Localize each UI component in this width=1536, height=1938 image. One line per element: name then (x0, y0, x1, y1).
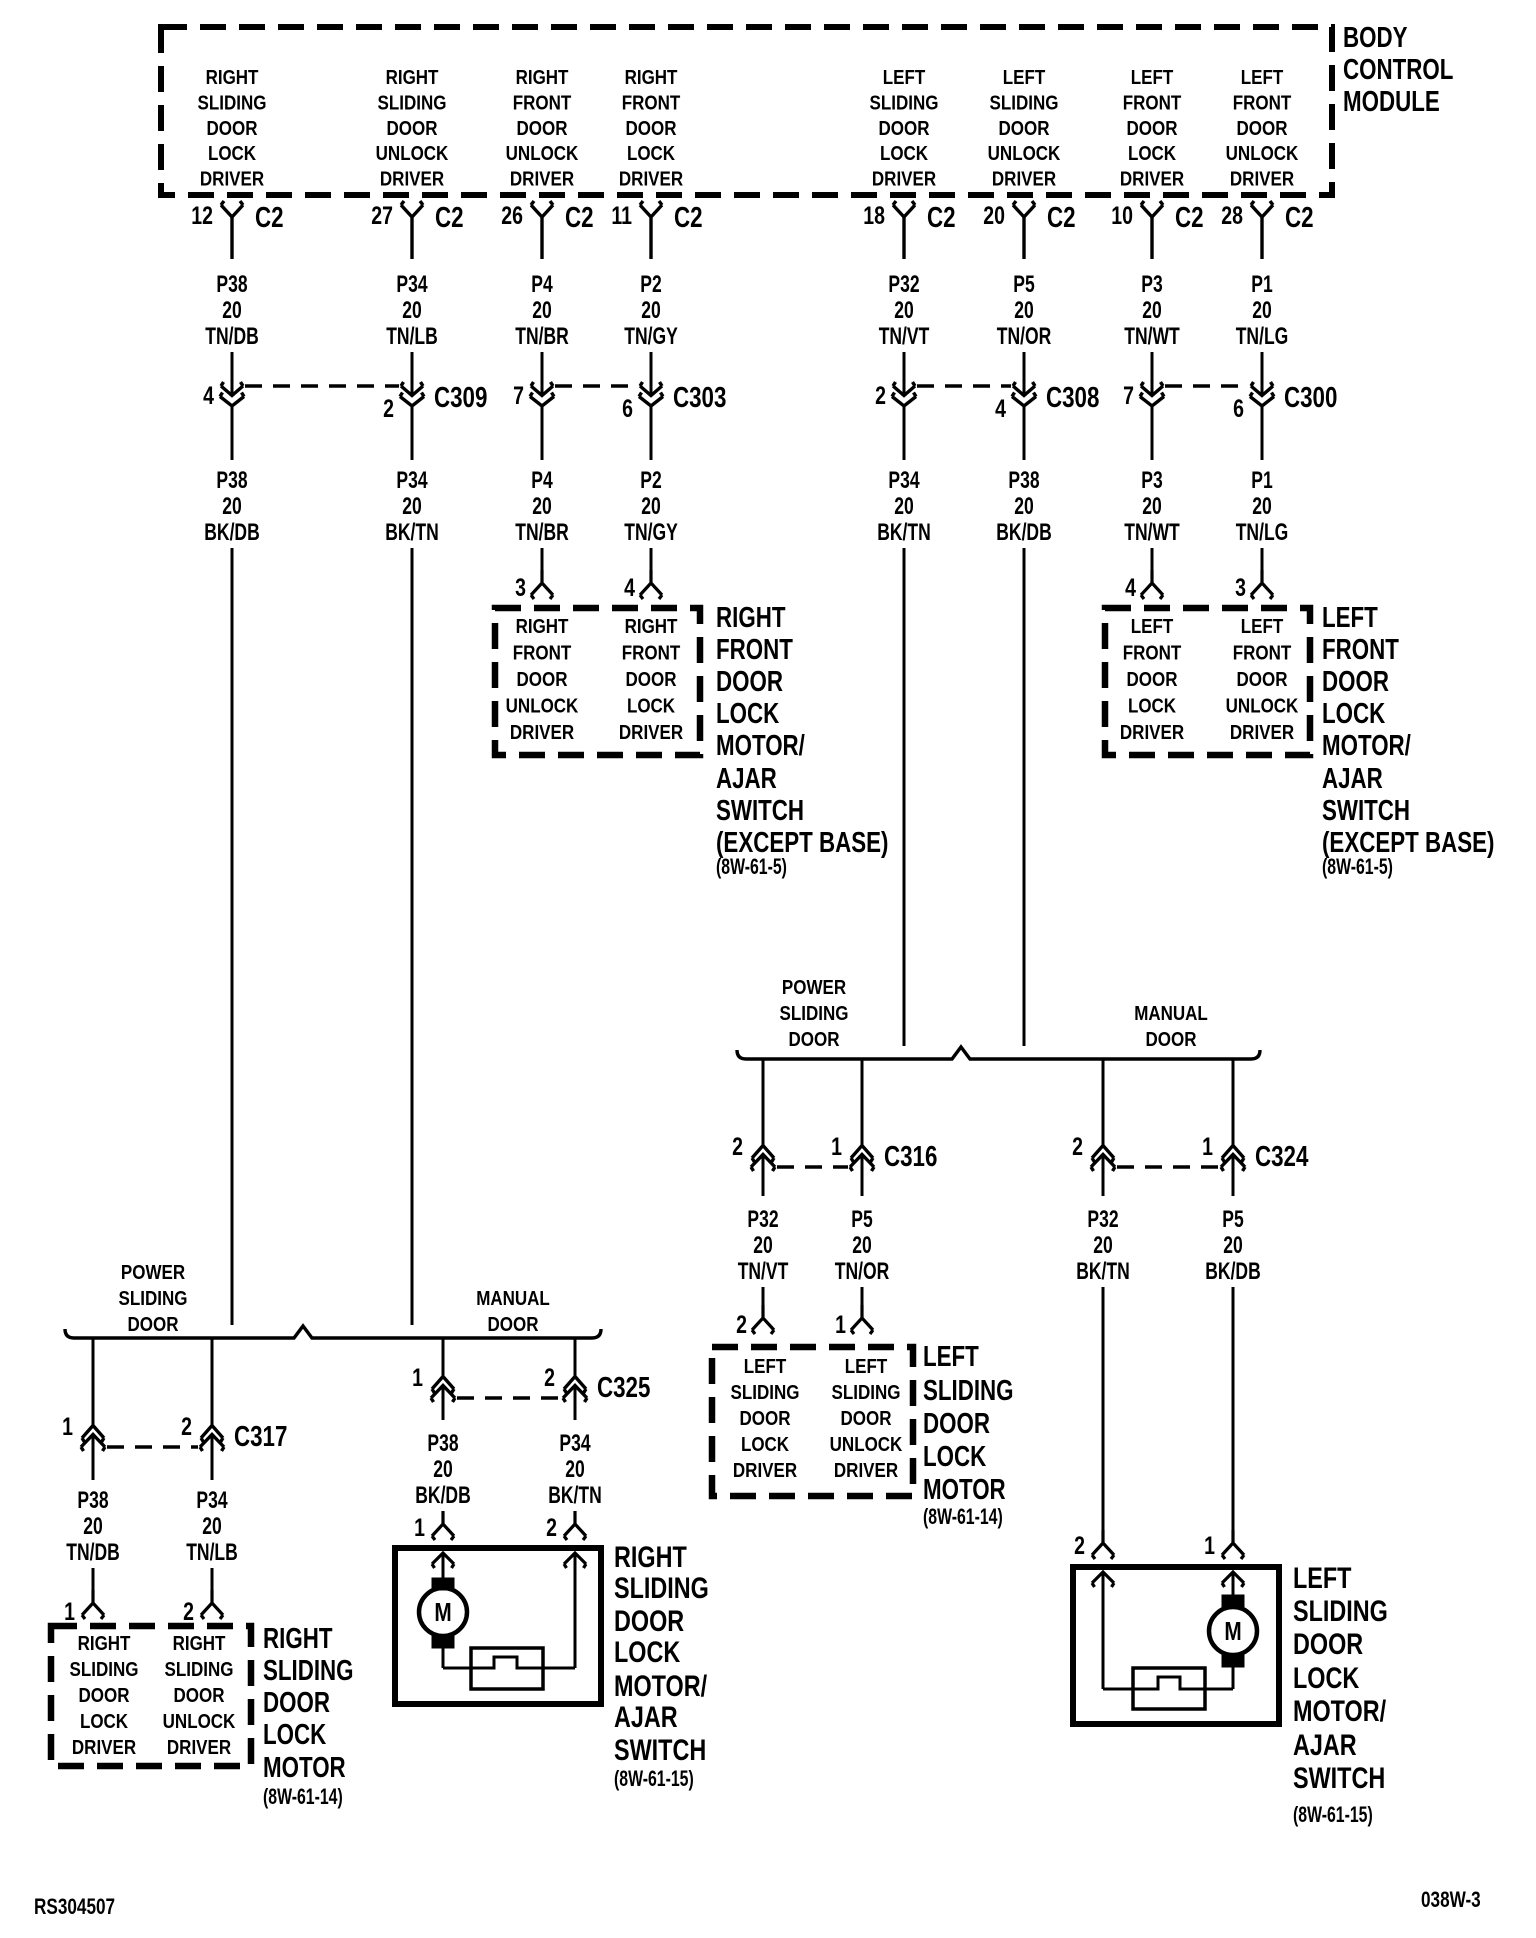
label: MANUAL DOOR (left sliding door branch) (1134, 1002, 1208, 1051)
label: RIGHT FRONT DOOR LOCK MOTOR/AJAR SWITCH (EXCEPT BASE) (716, 602, 888, 879)
svg-text:SLIDING: SLIDING (614, 1571, 709, 1604)
svg-text:P1: P1 (1251, 271, 1273, 297)
wire from brace to C316 pin 2 (762, 1059, 765, 1146)
in-line connector C317 pin 1 (left half) (62, 1413, 105, 1451)
svg-text:TN/OR: TN/OR (835, 1258, 889, 1284)
dashed pairing line of C300 (1165, 384, 1249, 387)
wire P4 20 TN/BR (BCM C2 to in-line connector) (515, 271, 569, 395)
label: LEFT SLIDING DOOR LOCK MOTOR/AJAR SWITCH (1293, 1561, 1388, 1828)
svg-text:BK/TN: BK/TN (877, 519, 931, 545)
svg-text:P32: P32 (1087, 1206, 1118, 1232)
brace: left sliding door configuration split (737, 1047, 1260, 1059)
box text: RIGHT FRONT DOOR LOCK DRIVER (619, 615, 684, 744)
svg-text:TN/GY: TN/GY (624, 323, 678, 349)
BCM output: LEFT FRONT DOOR LOCK DRIVER (1120, 66, 1185, 190)
box text: LEFT SLIDING DOOR UNLOCK DRIVER (830, 1355, 903, 1482)
svg-text:FRONT: FRONT (1322, 634, 1399, 665)
wire P38 20 BK/DB long run (col6 to manual door brace) (1023, 548, 1026, 1046)
connector pin 2 into left sliding door motor/ajar switch (1074, 1530, 1114, 1560)
svg-text:TN/GY: TN/GY (624, 519, 678, 545)
svg-text:P38: P38 (1008, 467, 1039, 493)
svg-text:C303: C303 (673, 382, 726, 413)
svg-text:C317: C317 (234, 1421, 287, 1452)
svg-text:UNLOCK: UNLOCK (1226, 694, 1299, 717)
in-line connector C324 pin 1 (right half) with label (1202, 1133, 1309, 1173)
svg-text:20: 20 (565, 1456, 584, 1482)
svg-text:1: 1 (64, 1598, 75, 1626)
svg-text:P34: P34 (396, 467, 427, 493)
svg-text:P5: P5 (1222, 1206, 1244, 1232)
box text: RIGHT FRONT DOOR UNLOCK DRIVER (506, 615, 579, 744)
component box: RIGHT SLIDING DOOR LOCK MOTOR/AJAR SWITCH (solid) (395, 1548, 601, 1704)
svg-text:LEFT: LEFT (1241, 66, 1284, 89)
wire from brace to C316 pin 1 (861, 1059, 864, 1146)
svg-text:DRIVER: DRIVER (619, 721, 684, 744)
svg-text:C2: C2 (565, 202, 594, 233)
wire P32 20 TN/VT (BCM C2 to in-line connector) (879, 271, 930, 395)
svg-text:18: 18 (863, 202, 885, 230)
svg-text:LEFT: LEFT (923, 1341, 979, 1372)
svg-text:RIGHT: RIGHT (516, 66, 569, 89)
svg-text:2: 2 (181, 1413, 192, 1441)
wire P34 20 BK/TN (below C325) (548, 1386, 602, 1509)
svg-text:P34: P34 (559, 1430, 590, 1456)
svg-text:RIGHT: RIGHT (716, 602, 786, 633)
svg-text:2: 2 (1072, 1133, 1083, 1161)
svg-text:DOOR: DOOR (1237, 668, 1289, 691)
svg-text:7: 7 (513, 382, 524, 410)
svg-text:P32: P32 (747, 1206, 778, 1232)
svg-text:TN/BR: TN/BR (515, 519, 569, 545)
svg-text:(8W-61-5): (8W-61-5) (716, 856, 787, 880)
svg-text:RIGHT: RIGHT (386, 66, 439, 89)
svg-text:POWER: POWER (782, 976, 847, 999)
svg-text:DOOR: DOOR (387, 116, 439, 139)
svg-text:(8W-61-14): (8W-61-14) (263, 1786, 343, 1810)
connector chevron inside box (pin 2 side) (1092, 1572, 1114, 1587)
wire from brace to C325 pin 2 (574, 1338, 577, 1377)
wire P5 20 BK/DB to left sliding door motor box (1232, 1287, 1235, 1530)
wire P38 20 BK/DB (below in-line connector) (204, 406, 259, 546)
connector C2 pin 10 (1111, 201, 1203, 259)
svg-text:28: 28 (1221, 202, 1243, 230)
in-line connector C309 pin 2 (right half) with label (383, 382, 487, 423)
svg-text:SLIDING: SLIDING (263, 1655, 354, 1686)
connector pin 1 into left sliding door motor/ajar switch (1204, 1530, 1244, 1560)
svg-text:DOOR: DOOR (174, 1684, 226, 1707)
svg-text:DOOR: DOOR (614, 1604, 684, 1637)
svg-text:1: 1 (831, 1133, 842, 1161)
component box: LEFT SLIDING DOOR LOCK MOTOR/AJAR SWITCH (solid) (1073, 1567, 1279, 1724)
component box: RIGHT SLIDING DOOR LOCK MOTOR (dashed) (51, 1626, 251, 1766)
svg-text:TN/DB: TN/DB (66, 1539, 120, 1565)
svg-text:SLIDING: SLIDING (198, 91, 267, 114)
in-line connector C308 pin 2 (left half) (875, 382, 916, 410)
in-line connector C300 pin 7 (left half) (1123, 382, 1164, 410)
svg-text:C300: C300 (1284, 382, 1337, 413)
svg-text:DRIVER: DRIVER (1120, 721, 1185, 744)
svg-text:BK/DB: BK/DB (415, 1482, 470, 1508)
connector C2 pin 28 (1221, 201, 1313, 259)
svg-text:20: 20 (1014, 297, 1033, 323)
svg-text:1: 1 (1204, 1532, 1215, 1560)
svg-text:P3: P3 (1141, 467, 1162, 493)
svg-text:DRIVER: DRIVER (510, 721, 575, 744)
wire from brace to C324 pin 1 (1232, 1059, 1235, 1146)
svg-text:SLIDING: SLIDING (119, 1287, 188, 1310)
in-line connector C308 pin 4 (right half) with label (995, 382, 1099, 423)
svg-text:RIGHT: RIGHT (516, 615, 569, 638)
svg-text:C308: C308 (1046, 382, 1099, 413)
svg-text:M: M (1224, 1617, 1241, 1646)
svg-text:LEFT: LEFT (883, 66, 926, 89)
svg-text:MOTOR/: MOTOR/ (614, 1669, 708, 1702)
wire from brace to C317 pin 2 (211, 1338, 214, 1426)
dashed pairing line of C308 (917, 384, 1011, 387)
svg-text:LOCK: LOCK (716, 698, 780, 729)
connector C2 pin 20 (983, 201, 1075, 259)
svg-text:AJAR: AJAR (1322, 763, 1383, 794)
svg-text:DOOR: DOOR (263, 1687, 330, 1718)
svg-text:DOOR: DOOR (716, 666, 783, 697)
svg-text:UNLOCK: UNLOCK (506, 142, 579, 165)
svg-text:P34: P34 (196, 1487, 227, 1513)
svg-text:SLIDING: SLIDING (70, 1658, 139, 1681)
svg-text:LEFT: LEFT (1293, 1561, 1352, 1594)
svg-text:DOOR: DOOR (1322, 666, 1389, 697)
connector chevron inside box (pin 1 side) (1222, 1572, 1244, 1587)
svg-text:LEFT: LEFT (1241, 615, 1284, 638)
svg-text:27: 27 (371, 202, 393, 230)
svg-text:20: 20 (1142, 493, 1161, 519)
svg-text:FRONT: FRONT (1233, 641, 1292, 664)
svg-text:LOCK: LOCK (614, 1635, 681, 1668)
wire P1 20 TN/LG (below in-line connector) (1236, 406, 1289, 546)
BCM output: LEFT SLIDING DOOR LOCK DRIVER (870, 66, 939, 190)
box text: LEFT FRONT DOOR UNLOCK DRIVER (1226, 615, 1299, 744)
svg-text:RS304507: RS304507 (34, 1895, 115, 1920)
svg-text:2: 2 (544, 1364, 555, 1392)
svg-text:038W-3: 038W-3 (1421, 1888, 1481, 1913)
svg-text:2: 2 (736, 1311, 747, 1339)
svg-text:UNLOCK: UNLOCK (1226, 142, 1299, 165)
svg-text:6: 6 (622, 395, 633, 423)
svg-text:SLIDING: SLIDING (378, 91, 447, 114)
ajar switch S1 (left sliding door) (1103, 1668, 1233, 1709)
svg-text:MOTOR/: MOTOR/ (1322, 730, 1411, 761)
svg-text:MODULE: MODULE (1343, 86, 1440, 117)
svg-text:20: 20 (852, 1232, 871, 1258)
svg-text:2: 2 (183, 1598, 194, 1626)
svg-text:SLIDING: SLIDING (165, 1658, 234, 1681)
svg-text:C2: C2 (435, 202, 464, 233)
svg-text:DOOR: DOOR (999, 116, 1051, 139)
svg-text:DRIVER: DRIVER (1230, 721, 1295, 744)
svg-text:FRONT: FRONT (716, 634, 793, 665)
svg-text:TN/OR: TN/OR (997, 323, 1051, 349)
svg-text:TN/VT: TN/VT (879, 323, 930, 349)
wire P34 20 TN/LB (below C317) (186, 1435, 238, 1566)
label: POWER SLIDING DOOR (left sliding door branch) (780, 976, 849, 1051)
svg-text:DRIVER: DRIVER (872, 167, 937, 190)
dashed pairing line of C303 (555, 384, 638, 387)
svg-text:20: 20 (894, 297, 913, 323)
svg-text:FRONT: FRONT (513, 91, 572, 114)
svg-text:DRIVER: DRIVER (200, 167, 265, 190)
connector pin 4 into front door lock motor (1125, 548, 1163, 602)
svg-text:4: 4 (203, 382, 214, 410)
svg-text:LEFT: LEFT (1322, 602, 1378, 633)
wire inside box from pin 2 to ajar switch (1102, 1572, 1105, 1689)
svg-text:2: 2 (732, 1133, 743, 1161)
svg-text:BK/DB: BK/DB (996, 519, 1051, 545)
connector chevron inside box (pin 1 side) (432, 1553, 454, 1568)
svg-text:(8W-61-15): (8W-61-15) (614, 1768, 694, 1792)
svg-text:2: 2 (1074, 1532, 1085, 1560)
svg-text:20: 20 (532, 297, 551, 323)
svg-text:1: 1 (835, 1311, 846, 1339)
svg-text:P38: P38 (216, 467, 247, 493)
label: POWER SLIDING DOOR (right sliding door branch) (119, 1261, 188, 1336)
svg-text:20: 20 (1252, 297, 1271, 323)
svg-text:DOOR: DOOR (879, 116, 931, 139)
wire P38 20 BK/DB (below in-line connector) (996, 406, 1051, 546)
svg-text:20: 20 (753, 1232, 772, 1258)
svg-text:LEFT: LEFT (1003, 66, 1046, 89)
svg-text:TN/BR: TN/BR (515, 323, 569, 349)
svg-text:LOCK: LOCK (923, 1441, 987, 1472)
connector pin 3 into front door lock motor (1235, 548, 1273, 602)
BCM output: RIGHT SLIDING DOOR UNLOCK DRIVER (376, 66, 449, 190)
svg-text:DRIVER: DRIVER (1120, 167, 1185, 190)
svg-text:TN/LB: TN/LB (386, 323, 438, 349)
svg-text:SLIDING: SLIDING (870, 91, 939, 114)
svg-text:SWITCH: SWITCH (614, 1733, 706, 1766)
svg-text:20: 20 (532, 493, 551, 519)
label: LEFT SLIDING DOOR LOCK MOTOR (923, 1341, 1014, 1529)
svg-text:P38: P38 (77, 1487, 108, 1513)
svg-text:BK/TN: BK/TN (548, 1482, 602, 1508)
svg-text:20: 20 (402, 297, 421, 323)
motor M1 (left sliding door lock motor) (1209, 1572, 1257, 1689)
svg-text:AJAR: AJAR (614, 1700, 678, 1733)
svg-text:LEFT: LEFT (1131, 615, 1174, 638)
connector pin 1 into right sliding door lock motor (64, 1568, 104, 1626)
wire P4 20 TN/BR (below in-line connector) (515, 406, 569, 546)
connector pin 1 into left sliding door lock motor (835, 1287, 873, 1339)
svg-text:20: 20 (1223, 1232, 1242, 1258)
dashed pairing line of C324 (1117, 1165, 1219, 1168)
svg-text:C2: C2 (255, 202, 284, 233)
wire from brace to C325 pin 1 (442, 1338, 445, 1377)
svg-text:DOOR: DOOR (517, 116, 569, 139)
svg-text:UNLOCK: UNLOCK (830, 1433, 903, 1456)
svg-text:P5: P5 (851, 1206, 873, 1232)
svg-text:20: 20 (1252, 493, 1271, 519)
in-line connector C303 pin 7 (left half) (513, 382, 554, 410)
svg-text:MANUAL: MANUAL (1134, 1002, 1208, 1025)
dashed pairing line of C316 (777, 1165, 848, 1168)
svg-text:P4: P4 (531, 271, 553, 297)
svg-text:2: 2 (875, 382, 886, 410)
svg-text:4: 4 (624, 574, 635, 602)
connector C2 pin 12 (191, 201, 283, 259)
in-line connector C325 pin 2 (right half) with label (544, 1364, 650, 1404)
connector pin 4 into front door lock motor (624, 548, 662, 602)
svg-text:20: 20 (83, 1513, 102, 1539)
svg-text:DOOR: DOOR (517, 668, 569, 691)
motor M2 (right sliding door lock motor) (419, 1553, 467, 1668)
svg-text:C309: C309 (434, 382, 487, 413)
wire P38 20 BK/DB (below C325) (415, 1386, 470, 1509)
svg-text:BK/TN: BK/TN (1076, 1258, 1130, 1284)
svg-text:DOOR: DOOR (1293, 1627, 1363, 1660)
BCM output: RIGHT FRONT DOOR UNLOCK DRIVER (506, 66, 579, 190)
svg-text:SLIDING: SLIDING (832, 1381, 901, 1404)
svg-text:MANUAL: MANUAL (476, 1287, 550, 1310)
in-line connector C317 pin 2 (right half) with label (181, 1413, 287, 1453)
in-line connector C316 pin 1 (right half) with label (831, 1133, 937, 1173)
svg-text:FRONT: FRONT (622, 91, 681, 114)
wire P1 20 TN/LG (BCM C2 to in-line connector) (1236, 271, 1289, 395)
svg-text:DOOR: DOOR (488, 1313, 540, 1336)
svg-text:SWITCH: SWITCH (1293, 1761, 1385, 1794)
label: RIGHT SLIDING DOOR LOCK MOTOR (263, 1623, 354, 1809)
svg-text:DOOR: DOOR (1127, 116, 1179, 139)
BCM output: RIGHT SLIDING DOOR LOCK DRIVER (198, 66, 267, 190)
svg-text:C2: C2 (927, 202, 956, 233)
svg-text:20: 20 (1014, 493, 1033, 519)
svg-text:7: 7 (1123, 382, 1134, 410)
svg-text:20: 20 (641, 493, 660, 519)
svg-text:SWITCH: SWITCH (716, 795, 804, 826)
svg-text:C2: C2 (1047, 202, 1076, 233)
svg-text:RIGHT: RIGHT (206, 66, 259, 89)
component box: LEFT FRONT DOOR LOCK MOTOR/AJAR SWITCH (dashed) (1105, 608, 1310, 755)
in-line connector C324 pin 2 (left half) (1072, 1133, 1115, 1171)
ajar switch S2 (right sliding door) (443, 1648, 575, 1689)
svg-text:C316: C316 (884, 1141, 937, 1172)
svg-text:DOOR: DOOR (626, 116, 678, 139)
svg-text:FRONT: FRONT (513, 641, 572, 664)
svg-text:DOOR: DOOR (79, 1684, 131, 1707)
connector pin 2 into right sliding door motor/ajar switch (546, 1511, 586, 1542)
svg-text:RIGHT: RIGHT (625, 66, 678, 89)
wire P38 20 TN/DB (BCM C2 to in-line connector) (205, 271, 259, 395)
svg-text:BK/DB: BK/DB (1205, 1258, 1260, 1284)
in-line connector C303 pin 6 (right half) with label (622, 382, 726, 423)
svg-text:P4: P4 (531, 467, 553, 493)
svg-text:10: 10 (1111, 202, 1133, 230)
box text: LEFT FRONT DOOR LOCK DRIVER (1120, 615, 1185, 744)
wire P3 20 TN/WT (BCM C2 to in-line connector) (1124, 271, 1180, 395)
in-line connector C316 pin 2 (left half) (732, 1133, 775, 1171)
svg-text:P2: P2 (640, 271, 661, 297)
svg-text:RIGHT: RIGHT (614, 1540, 687, 1573)
svg-text:LOCK: LOCK (1322, 698, 1386, 729)
svg-text:P3: P3 (1141, 271, 1162, 297)
BCM output: LEFT FRONT DOOR UNLOCK DRIVER (1226, 66, 1299, 190)
connector pin 2 into left sliding door lock motor (736, 1287, 774, 1339)
svg-text:1: 1 (414, 1514, 425, 1542)
connector pin 2 into right sliding door lock motor (183, 1568, 223, 1626)
wire from brace to C317 pin 1 (92, 1338, 95, 1426)
svg-text:BK/TN: BK/TN (385, 519, 439, 545)
connector C2 pin 26 (501, 201, 593, 259)
svg-text:DRIVER: DRIVER (619, 167, 684, 190)
svg-text:BODY: BODY (1343, 22, 1408, 53)
svg-text:DRIVER: DRIVER (834, 1459, 899, 1482)
svg-text:DOOR: DOOR (128, 1313, 180, 1336)
svg-text:(8W-61-15): (8W-61-15) (1293, 1804, 1373, 1828)
svg-text:C324: C324 (1255, 1141, 1309, 1172)
svg-text:LOCK: LOCK (263, 1719, 327, 1750)
wire from brace to C324 pin 2 (1102, 1059, 1105, 1146)
svg-text:LOCK: LOCK (80, 1710, 129, 1733)
svg-text:FRONT: FRONT (1123, 91, 1182, 114)
svg-text:20: 20 (894, 493, 913, 519)
svg-text:DRIVER: DRIVER (992, 167, 1057, 190)
svg-text:TN/DB: TN/DB (205, 323, 259, 349)
svg-text:P2: P2 (640, 467, 661, 493)
svg-text:AJAR: AJAR (1293, 1728, 1357, 1761)
box text: LEFT SLIDING DOOR LOCK DRIVER (731, 1355, 800, 1482)
svg-text:LEFT: LEFT (845, 1355, 888, 1378)
svg-text:2: 2 (546, 1514, 557, 1542)
svg-text:20: 20 (433, 1456, 452, 1482)
svg-text:LOCK: LOCK (627, 142, 676, 165)
svg-text:P34: P34 (396, 271, 427, 297)
svg-text:SLIDING: SLIDING (923, 1375, 1014, 1406)
svg-text:6: 6 (1233, 395, 1244, 423)
svg-text:LOCK: LOCK (741, 1433, 790, 1456)
svg-text:20: 20 (641, 297, 660, 323)
svg-text:P34: P34 (888, 467, 919, 493)
svg-text:DRIVER: DRIVER (1230, 167, 1295, 190)
svg-text:M: M (434, 1598, 451, 1627)
box text: RIGHT SLIDING DOOR UNLOCK DRIVER (163, 1632, 236, 1759)
svg-text:4: 4 (1125, 574, 1136, 602)
svg-text:MOTOR/: MOTOR/ (716, 730, 805, 761)
wire inside box from pin 2 to ajar switch (574, 1553, 577, 1668)
svg-text:DOOR: DOOR (923, 1408, 990, 1439)
connector pin 1 into right sliding door motor/ajar switch (414, 1511, 454, 1542)
svg-text:(EXCEPT BASE): (EXCEPT BASE) (1322, 827, 1494, 858)
dashed pairing line of C317 (107, 1445, 198, 1448)
wire P2 20 TN/GY (below in-line connector) (624, 406, 678, 546)
connector C2 pin 18 (863, 201, 955, 259)
dashed pairing line of C309 (245, 384, 399, 387)
svg-text:SLIDING: SLIDING (731, 1381, 800, 1404)
label: MANUAL DOOR (right sliding door branch) (476, 1287, 550, 1336)
svg-text:26: 26 (501, 202, 523, 230)
svg-text:P38: P38 (427, 1430, 458, 1456)
svg-text:UNLOCK: UNLOCK (506, 694, 579, 717)
svg-text:P5: P5 (1013, 271, 1035, 297)
svg-text:3: 3 (515, 574, 526, 602)
wire P2 20 TN/GY (BCM C2 to in-line connector) (624, 271, 678, 395)
wire P34 20 BK/TN (below in-line connector) (877, 406, 931, 546)
svg-text:2: 2 (383, 395, 394, 423)
svg-text:20: 20 (222, 297, 241, 323)
svg-text:LOCK: LOCK (880, 142, 929, 165)
in-line connector C309 pin 4 (left half) (203, 382, 244, 410)
svg-text:20: 20 (222, 493, 241, 519)
svg-text:DRIVER: DRIVER (510, 167, 575, 190)
svg-text:1: 1 (1202, 1133, 1213, 1161)
wire P38 20 BK/DB long run (col1 to power sliding door brace) (231, 548, 234, 1325)
svg-text:DRIVER: DRIVER (72, 1736, 137, 1759)
